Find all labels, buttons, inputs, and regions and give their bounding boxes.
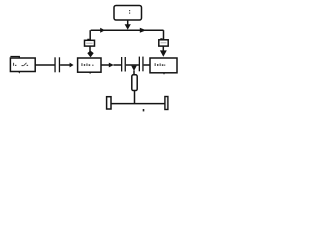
port nub under V1 xyxy=(18,72,20,74)
label inside VM2 xyxy=(155,63,166,66)
port nub under VM1 xyxy=(89,72,91,74)
arrowhead into VM2 (down) xyxy=(160,50,167,56)
wire from U1 down xyxy=(127,20,129,25)
mixer block VM1 (second box) xyxy=(78,58,101,72)
wire R1 to resonator line xyxy=(134,91,136,104)
transmission line TL1 (bottom) xyxy=(111,103,165,105)
resistor R1 (vertical) xyxy=(132,75,137,91)
port nub under VM2 xyxy=(163,73,165,75)
arrowhead on bus (left, pointing right) xyxy=(100,28,105,33)
label inside VM1 xyxy=(81,63,93,66)
switch block S2 (right small box) xyxy=(159,40,168,46)
arrowhead on bus (right, pointing right) xyxy=(140,28,146,33)
arrowhead from node N1 down xyxy=(131,66,137,71)
source block V1 (left box) xyxy=(10,58,35,72)
wire C2 to node N1 to C3 xyxy=(126,64,139,66)
capacitor C2 xyxy=(121,57,122,72)
left termination xyxy=(107,97,111,109)
wire top bus xyxy=(91,29,164,31)
oscillator block U1 (top box) xyxy=(114,6,142,21)
arrowhead mid (right) xyxy=(109,63,114,68)
label inside U1 xyxy=(129,10,130,11)
wire node to R1 xyxy=(133,71,135,76)
wire VM1 to C2 xyxy=(101,64,109,66)
wire V1 to C1 xyxy=(35,64,54,66)
load block VM2 (right box) xyxy=(150,58,177,73)
label inside V1 xyxy=(13,63,28,66)
arrowhead into node T (down) xyxy=(125,24,131,29)
right termination xyxy=(165,97,168,110)
wire left branch down xyxy=(89,30,91,40)
capacitor C1 xyxy=(54,57,55,72)
wire C1 to VM1 xyxy=(60,64,70,66)
wire right branch down xyxy=(163,30,165,40)
arrowhead into VM1 (down) xyxy=(87,51,93,58)
tab on V1 xyxy=(10,57,19,59)
wire from S2 down xyxy=(162,46,164,51)
capacitor C3 xyxy=(139,57,140,72)
wire from S1 down xyxy=(89,46,91,52)
arrowhead into VM1 (right) xyxy=(70,63,74,68)
wire C3 to VM2 xyxy=(144,64,150,66)
switch block S1 (left small box) xyxy=(85,40,95,46)
tick label under TL1 xyxy=(143,109,145,111)
